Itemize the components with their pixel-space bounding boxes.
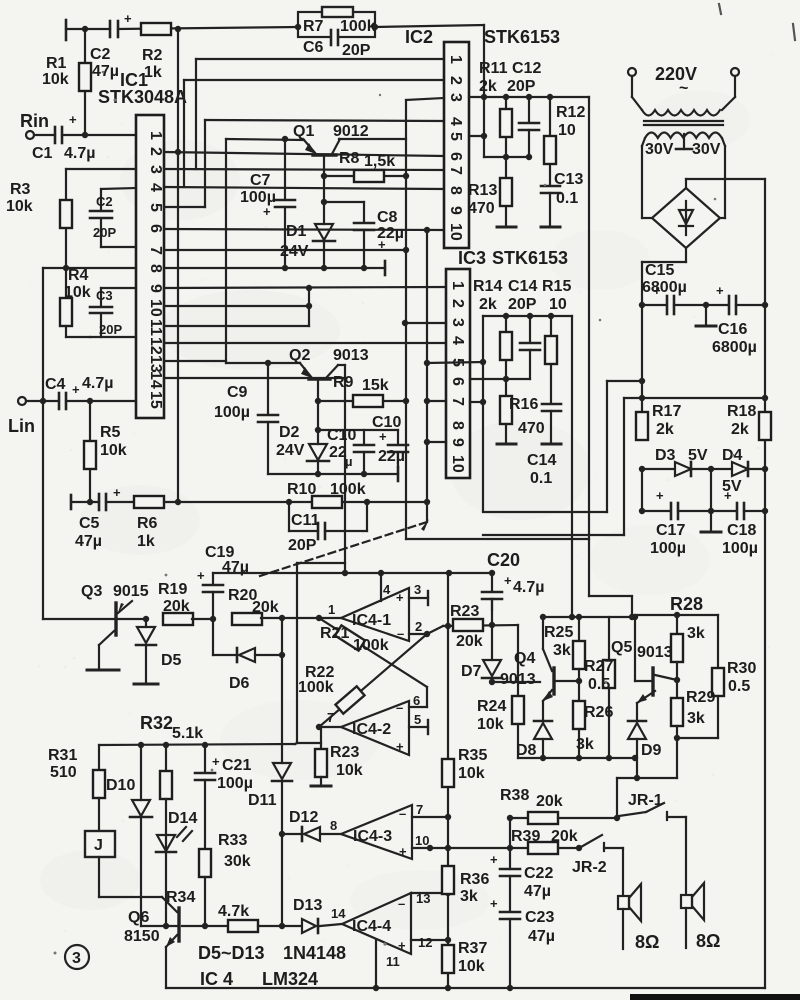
wire Q2 collector down bbox=[317, 380, 319, 401]
resistor R35 10k bbox=[442, 759, 454, 787]
svg-text:100µ: 100µ bbox=[214, 404, 250, 421]
svg-text:30V: 30V bbox=[692, 141, 721, 158]
svg-text:D10: D10 bbox=[106, 777, 135, 794]
wire bridge plus output bbox=[685, 179, 687, 188]
resistor R27 0.5 bbox=[608, 617, 610, 660]
svg-text:IC4-2: IC4-2 bbox=[352, 721, 391, 738]
svg-text:C16: C16 bbox=[718, 321, 747, 338]
svg-text:8Ω: 8Ω bbox=[635, 932, 659, 952]
svg-text:20k: 20k bbox=[252, 599, 279, 616]
svg-text:STK6153: STK6153 bbox=[492, 248, 568, 268]
svg-text:+: + bbox=[490, 852, 498, 867]
resistor R12 10 bbox=[549, 97, 551, 185]
svg-text:3k: 3k bbox=[553, 642, 571, 659]
scan specks bbox=[54, 71, 735, 955]
svg-text:20k: 20k bbox=[536, 793, 563, 810]
wire pin6 row bbox=[470, 378, 530, 380]
svg-text:47µ: 47µ bbox=[528, 928, 555, 945]
svg-text:D14: D14 bbox=[168, 810, 197, 827]
svg-text:2: 2 bbox=[447, 76, 464, 85]
capacitor C14 20P bbox=[529, 316, 531, 342]
svg-text:8150: 8150 bbox=[124, 928, 160, 945]
diode D4 5V bbox=[732, 462, 748, 476]
Q1 regulator subcircuit bbox=[226, 98, 444, 539]
svg-text:100µ: 100µ bbox=[722, 540, 758, 557]
svg-text:R24: R24 bbox=[477, 698, 506, 715]
svg-text:9: 9 bbox=[449, 438, 466, 447]
wire pin3 row left to R3 bbox=[66, 168, 136, 170]
svg-text:4: 4 bbox=[147, 183, 164, 192]
diode D13 bbox=[282, 919, 342, 933]
svg-text:3: 3 bbox=[447, 93, 464, 102]
svg-text:3: 3 bbox=[147, 165, 164, 174]
svg-text:R37: R37 bbox=[458, 940, 487, 957]
wire pin12 row to IC3 pin4 bbox=[164, 342, 446, 344]
capacitor C18 100u bbox=[711, 510, 736, 512]
bridge rectifier bbox=[642, 179, 765, 988]
node Lin terminal bbox=[18, 397, 26, 405]
IC2 body bbox=[444, 42, 469, 248]
resistor R18 2k bbox=[759, 412, 771, 440]
svg-text:4.7µ: 4.7µ bbox=[64, 145, 95, 162]
wire D11 column bbox=[281, 655, 283, 763]
regulator feed wires bbox=[260, 378, 645, 576]
svg-text:R31: R31 bbox=[48, 747, 77, 764]
resistor R3 10k bbox=[65, 169, 67, 300]
svg-text:7: 7 bbox=[416, 802, 423, 817]
resistor R13 470 bbox=[505, 157, 507, 226]
wire Q5 base column bbox=[634, 617, 636, 681]
svg-text:3k: 3k bbox=[687, 625, 705, 642]
svg-text:+: + bbox=[399, 844, 407, 859]
svg-text:R19: R19 bbox=[158, 581, 187, 598]
svg-text:R34: R34 bbox=[166, 889, 195, 906]
svg-text:14: 14 bbox=[331, 906, 346, 921]
diode D1 zener 24V bbox=[323, 176, 325, 224]
svg-text:–: – bbox=[397, 626, 404, 641]
wire pin5 to IC2 pin4 bbox=[164, 206, 205, 208]
svg-text:+: + bbox=[212, 754, 220, 769]
svg-text:6: 6 bbox=[147, 224, 164, 233]
node mains terminal right bbox=[731, 68, 739, 76]
svg-text:Lin: Lin bbox=[8, 416, 35, 436]
resistor R2 bbox=[141, 23, 171, 35]
capacitor C10b 22u bbox=[397, 430, 399, 444]
svg-text:10k: 10k bbox=[477, 716, 504, 733]
capacitor C14b 0.1 bbox=[542, 403, 561, 406]
svg-text:15: 15 bbox=[147, 391, 164, 409]
capacitor C10 22u bbox=[363, 430, 365, 444]
svg-text:IC 4: IC 4 bbox=[200, 969, 233, 989]
svg-text:D5: D5 bbox=[161, 652, 182, 669]
svg-text:22µ: 22µ bbox=[378, 448, 405, 465]
svg-text:IC3: IC3 bbox=[458, 248, 486, 268]
speaker 2 bbox=[681, 883, 704, 948]
svg-text:4: 4 bbox=[447, 117, 464, 126]
svg-text:100µ: 100µ bbox=[650, 540, 686, 557]
wire pin2 row to IC2 pin6 bbox=[164, 152, 444, 156]
svg-text:R29: R29 bbox=[686, 689, 715, 706]
wire x589 corner to Q5 bbox=[589, 595, 632, 597]
resistor R26 3k bbox=[573, 701, 585, 729]
wire pin3 stub from x405 bbox=[405, 322, 446, 324]
svg-text:C14: C14 bbox=[527, 452, 556, 469]
svg-text:5: 5 bbox=[147, 203, 164, 212]
svg-text:D9: D9 bbox=[641, 742, 662, 759]
svg-text:C23: C23 bbox=[525, 909, 554, 926]
resistor R17 2k bbox=[636, 412, 648, 440]
svg-text:20P: 20P bbox=[288, 537, 317, 554]
svg-text:R13: R13 bbox=[468, 182, 497, 199]
wire R2 node down to pin2 and R6 row bbox=[177, 29, 179, 502]
svg-text:D5~D13: D5~D13 bbox=[198, 943, 265, 963]
svg-text:100k: 100k bbox=[298, 679, 334, 696]
Q5 output stage bbox=[589, 596, 724, 817]
wire pin7 row R9 side bbox=[427, 400, 446, 402]
svg-text:+: + bbox=[653, 283, 661, 298]
svg-text:C2: C2 bbox=[96, 194, 113, 209]
svg-text:9013: 9013 bbox=[500, 671, 536, 688]
svg-text:20k: 20k bbox=[456, 633, 483, 650]
wire right border bbox=[764, 179, 766, 988]
svg-text:+: + bbox=[504, 573, 512, 588]
svg-text:C8: C8 bbox=[377, 209, 398, 226]
wire riser pin13 to rail bbox=[225, 139, 227, 363]
svg-text:7: 7 bbox=[147, 246, 164, 255]
svg-text:15k: 15k bbox=[362, 377, 389, 394]
scan haze blobs bbox=[40, 90, 750, 930]
wire C10 top row bbox=[318, 429, 398, 431]
wire pin5 stub bbox=[469, 135, 484, 137]
block top rail y617 bbox=[543, 616, 632, 618]
capacitor C12 20P bbox=[528, 97, 530, 122]
wire pin13 row to Q1 rail riser bbox=[164, 360, 226, 362]
resistor R5 10k bbox=[89, 401, 91, 502]
svg-text:1: 1 bbox=[447, 55, 464, 64]
svg-text:–: – bbox=[399, 806, 406, 821]
wire pin14 row bbox=[164, 377, 345, 379]
primary winding bbox=[642, 110, 720, 116]
wire pin3 rail bbox=[469, 96, 589, 98]
svg-text:100µ: 100µ bbox=[217, 775, 253, 792]
svg-text:R9: R9 bbox=[333, 374, 354, 391]
svg-text:+: + bbox=[378, 237, 386, 252]
capacitor C3 20P bbox=[100, 288, 102, 306]
IC1 body bbox=[136, 115, 164, 418]
svg-text:D7: D7 bbox=[461, 663, 482, 680]
svg-text:D11: D11 bbox=[248, 792, 277, 809]
svg-text:30V: 30V bbox=[645, 141, 674, 158]
svg-text:9013: 9013 bbox=[333, 347, 369, 364]
resistor R22 100k diagonal bbox=[319, 634, 427, 727]
wire Q4 base row bbox=[492, 681, 540, 683]
svg-text:1,5k: 1,5k bbox=[364, 153, 395, 170]
svg-text:C1: C1 bbox=[32, 145, 53, 162]
svg-text:R10: R10 bbox=[287, 481, 316, 498]
svg-text:R23: R23 bbox=[330, 744, 359, 761]
svg-text:IC4-1: IC4-1 bbox=[352, 612, 391, 629]
svg-text:Rin: Rin bbox=[20, 111, 49, 131]
bottom rail bbox=[166, 985, 765, 991]
svg-text:3: 3 bbox=[414, 582, 421, 597]
svg-text:3k: 3k bbox=[687, 710, 705, 727]
svg-text:Q3: Q3 bbox=[81, 583, 102, 600]
wire long vertical x572 bbox=[571, 316, 573, 617]
wire r11 c12 bottom row bbox=[484, 156, 529, 158]
resistor R30 0.5 bbox=[717, 615, 719, 668]
capacitor C17 100u bbox=[642, 510, 670, 512]
transistor Q6 8150 bbox=[177, 908, 180, 941]
svg-text:R39: R39 bbox=[511, 828, 540, 845]
svg-text:9015: 9015 bbox=[113, 583, 149, 600]
resistor R38 20k bbox=[510, 817, 531, 819]
svg-text:3: 3 bbox=[449, 318, 466, 327]
IC1 pin numbers 1-15 bbox=[147, 131, 164, 409]
LED D14 bbox=[157, 835, 175, 851]
transistor Q3 9015 bbox=[43, 618, 146, 620]
wire pin6 row to IC2 pin10 bbox=[164, 229, 444, 230]
node pin2 junction bbox=[175, 149, 181, 155]
svg-text:D6: D6 bbox=[229, 675, 250, 692]
svg-text:100k: 100k bbox=[353, 637, 389, 654]
resistor R19 20k bbox=[163, 613, 193, 625]
switch JR-1 bbox=[619, 812, 646, 816]
svg-text:0.5: 0.5 bbox=[588, 676, 610, 693]
svg-text:JR-1: JR-1 bbox=[628, 792, 663, 809]
ground rail under Q2 block bbox=[268, 473, 398, 475]
svg-text:+: + bbox=[398, 938, 406, 953]
svg-text:D2: D2 bbox=[279, 424, 300, 441]
wire secondary right lead bbox=[722, 138, 725, 146]
svg-text:2k: 2k bbox=[656, 421, 674, 438]
wire Lin row bbox=[26, 400, 59, 402]
svg-text:–: – bbox=[398, 896, 405, 911]
resistor R32 5.1k bbox=[165, 745, 167, 771]
wire R7 box to IC2 pin3/5 drop bbox=[375, 25, 484, 27]
svg-text:30k: 30k bbox=[224, 853, 251, 870]
svg-text:µ: µ bbox=[345, 454, 353, 469]
svg-text:220V: 220V bbox=[655, 64, 697, 84]
svg-text:C7: C7 bbox=[250, 172, 271, 189]
svg-text:0.1: 0.1 bbox=[530, 470, 552, 487]
resistor R21 100k diagonal bbox=[319, 618, 427, 687]
svg-text:C22: C22 bbox=[524, 865, 553, 882]
wire y539 across bbox=[406, 538, 589, 540]
diode D12 bbox=[282, 827, 341, 841]
wire output to JR1 bbox=[617, 777, 677, 779]
svg-text:C9: C9 bbox=[227, 384, 248, 401]
capacitor C16 6800u bbox=[706, 304, 728, 306]
svg-text:2k: 2k bbox=[731, 421, 749, 438]
capacitor C21 100u bbox=[204, 745, 206, 772]
capacitor C19 47u bbox=[212, 573, 214, 584]
svg-text:R30: R30 bbox=[727, 660, 756, 677]
wire pin7 right stub bbox=[470, 401, 483, 403]
svg-text:4: 4 bbox=[449, 336, 466, 345]
svg-text:2k: 2k bbox=[479, 296, 497, 313]
R35 R36 R37 chain bbox=[442, 573, 454, 988]
resistor R28 3k bbox=[676, 615, 678, 634]
resistor R10 100k row bbox=[286, 496, 430, 539]
svg-text:+: + bbox=[124, 11, 132, 26]
svg-text:Q6: Q6 bbox=[128, 909, 149, 926]
wire y535 across bbox=[483, 534, 624, 536]
capacitor C1 4.7u bbox=[34, 134, 55, 136]
diode D5 bbox=[145, 619, 147, 627]
wire pin5 row bbox=[427, 362, 483, 363]
capacitor C20 lower stub bbox=[491, 599, 493, 625]
svg-text:3k: 3k bbox=[576, 736, 594, 753]
svg-text:8Ω: 8Ω bbox=[696, 931, 720, 951]
IC3 right network R14 C14 R15 R16 C14b bbox=[402, 227, 572, 617]
capacitor C7 100u bbox=[284, 139, 286, 199]
svg-text:+: + bbox=[197, 568, 205, 583]
svg-text:R27: R27 bbox=[584, 658, 613, 675]
wire pin9 row to IC3 pin1 bbox=[164, 287, 446, 288]
svg-text:470: 470 bbox=[468, 200, 495, 217]
wire IC2 pin2 row bbox=[184, 79, 444, 81]
resistor R29 3k bbox=[671, 698, 683, 726]
svg-text:0.5: 0.5 bbox=[728, 678, 750, 695]
svg-text:R26: R26 bbox=[584, 704, 613, 721]
svg-text:20P: 20P bbox=[507, 78, 536, 95]
svg-text:C4: C4 bbox=[45, 376, 66, 393]
wire verticals to C17 C18 row bbox=[641, 469, 643, 511]
svg-text:2: 2 bbox=[147, 147, 164, 156]
svg-text:9012: 9012 bbox=[333, 123, 369, 140]
svg-text:6800µ: 6800µ bbox=[642, 279, 687, 296]
resistor R25 3k bbox=[578, 617, 580, 641]
svg-text:Q2: Q2 bbox=[289, 347, 310, 364]
wire pin11 row bbox=[164, 325, 309, 327]
svg-text:3: 3 bbox=[72, 950, 81, 967]
resistor R37 10k bbox=[442, 945, 454, 973]
svg-text:20k: 20k bbox=[551, 828, 578, 845]
svg-text:+: + bbox=[716, 283, 724, 298]
capacitor C20 4.7u bbox=[482, 573, 502, 610]
svg-text:8: 8 bbox=[330, 818, 337, 833]
svg-text:+: + bbox=[69, 112, 77, 127]
svg-text:+: + bbox=[72, 382, 80, 397]
svg-text:C12: C12 bbox=[512, 60, 541, 77]
svg-text:+: + bbox=[379, 429, 387, 444]
svg-text:14: 14 bbox=[147, 371, 164, 389]
svg-text:R14: R14 bbox=[473, 278, 502, 295]
diode D2 zener 24V bbox=[317, 401, 319, 444]
wire C1 to IC1 pin1 bbox=[62, 134, 136, 136]
svg-text:5.1k: 5.1k bbox=[172, 725, 203, 742]
svg-text:+: + bbox=[113, 485, 121, 500]
svg-text:R12: R12 bbox=[556, 104, 585, 121]
svg-text:D3: D3 bbox=[655, 447, 676, 464]
svg-text:510: 510 bbox=[50, 764, 77, 781]
ground stub center bbox=[705, 305, 707, 324]
svg-text:R28: R28 bbox=[670, 594, 703, 614]
svg-text:R11: R11 bbox=[479, 60, 508, 77]
bus wires between IC1 and IC2/IC3 bbox=[164, 59, 446, 378]
svg-text:R35: R35 bbox=[458, 747, 487, 764]
svg-text:8: 8 bbox=[449, 421, 466, 430]
diode D9 bbox=[628, 720, 646, 723]
svg-text:Q1: Q1 bbox=[293, 123, 314, 140]
svg-text:1: 1 bbox=[328, 602, 335, 617]
svg-text:4.7k: 4.7k bbox=[218, 903, 249, 920]
wire output node row bbox=[677, 737, 718, 739]
capacitor C8 22u bbox=[321, 199, 327, 205]
svg-text:D8: D8 bbox=[516, 742, 537, 759]
resistor R6 1k bbox=[106, 501, 136, 503]
svg-text:20P: 20P bbox=[342, 42, 371, 59]
svg-text:4.7µ: 4.7µ bbox=[513, 579, 544, 596]
svg-text:100k: 100k bbox=[330, 481, 366, 498]
dashed sense line bbox=[260, 522, 427, 576]
capacitor C4 4.7u bbox=[58, 393, 61, 409]
svg-text:R21: R21 bbox=[320, 625, 349, 642]
svg-text:5: 5 bbox=[447, 132, 464, 141]
wire pin8 ground rail bbox=[164, 267, 385, 269]
wire IC2 pin1 row bbox=[196, 58, 444, 60]
svg-text:C6: C6 bbox=[303, 39, 324, 56]
svg-text:C14: C14 bbox=[508, 278, 537, 295]
wire Q6 base row to R34 bbox=[182, 925, 228, 927]
resistor R31 510 bbox=[98, 745, 100, 770]
svg-text:2: 2 bbox=[449, 299, 466, 308]
svg-text:10k: 10k bbox=[458, 765, 485, 782]
node R2 junction bbox=[175, 26, 181, 32]
capacitor C2 47u bbox=[109, 21, 112, 37]
Q3 input stage bbox=[43, 570, 495, 763]
svg-text:R8: R8 bbox=[339, 150, 360, 167]
ground stub C17 C18 bbox=[710, 511, 712, 530]
svg-text:10: 10 bbox=[447, 223, 464, 241]
svg-text:12: 12 bbox=[147, 337, 164, 355]
svg-text:C20: C20 bbox=[487, 550, 520, 570]
IC2 right network R11 C12 R12 R13 C13 bbox=[469, 94, 589, 596]
svg-text:Q4: Q4 bbox=[514, 650, 535, 667]
resistor R39 20k bbox=[430, 847, 531, 849]
svg-text:47µ: 47µ bbox=[524, 883, 551, 900]
wire D6 node riser bbox=[281, 618, 283, 655]
wire x297 feedback column bbox=[297, 563, 345, 786]
svg-text:C13: C13 bbox=[554, 171, 583, 188]
svg-text:C2: C2 bbox=[90, 46, 111, 63]
wire pin3 row to IC2 pin7 bbox=[164, 169, 444, 170]
resistor R1 bbox=[84, 29, 86, 135]
diode D11 bbox=[272, 763, 292, 929]
svg-text:D12: D12 bbox=[289, 809, 318, 826]
op-amp IC4-3 bbox=[341, 805, 451, 859]
svg-text:C10: C10 bbox=[372, 414, 401, 431]
svg-text:Q5: Q5 bbox=[611, 639, 632, 656]
svg-text:IC4-4: IC4-4 bbox=[352, 918, 391, 935]
svg-text:2k: 2k bbox=[479, 78, 497, 95]
svg-text:R25: R25 bbox=[544, 624, 573, 641]
svg-text:1k: 1k bbox=[137, 533, 155, 550]
svg-text:8: 8 bbox=[447, 186, 464, 195]
resistor R16 470 bbox=[505, 379, 507, 423]
diode D10 zener bbox=[140, 745, 142, 800]
svg-text:13: 13 bbox=[416, 891, 430, 906]
switch JR-2 bbox=[581, 835, 602, 847]
svg-text:+: + bbox=[724, 488, 732, 503]
wire J to Q6 collector bbox=[98, 857, 100, 897]
svg-text:8: 8 bbox=[147, 264, 164, 273]
node mains terminal left bbox=[628, 68, 636, 76]
resistor R4 10k bbox=[60, 298, 72, 326]
bottom left block: rail y745 bbox=[85, 742, 297, 988]
svg-text:10k: 10k bbox=[336, 762, 363, 779]
svg-text:10: 10 bbox=[415, 833, 429, 848]
